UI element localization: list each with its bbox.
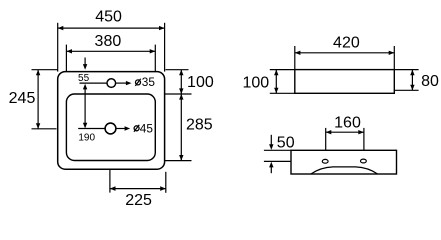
- svg-text:225: 225: [125, 192, 152, 209]
- dimension 245: [9, 70, 58, 129]
- dimension 50: [264, 135, 295, 174]
- dimension 100 side view: [242, 70, 294, 94]
- label diameter 35: [135, 75, 155, 89]
- svg-text:190: 190: [78, 133, 95, 144]
- svg-text:285: 285: [186, 117, 213, 134]
- dimension 225: [110, 169, 166, 209]
- dimension 450: [58, 9, 165, 72]
- faucet hole centerline: [80, 82, 108, 84]
- dimension 420: [295, 35, 395, 70]
- plan view inner bowl outline: [66, 94, 155, 161]
- dimension 100 plan view: [165, 70, 214, 94]
- dimension 190: [78, 84, 95, 144]
- dimension 285: [165, 94, 213, 161]
- svg-text:45: 45: [140, 121, 154, 135]
- svg-text:35: 35: [142, 75, 156, 89]
- front view bowl curve: [311, 167, 378, 174]
- dimension 80: [394, 70, 439, 91]
- svg-text:245: 245: [9, 90, 36, 107]
- svg-text:55: 55: [78, 73, 90, 84]
- svg-text:450: 450: [95, 9, 122, 26]
- side view outline: [295, 70, 395, 94]
- faucet hole leader arrow: [116, 81, 132, 85]
- dimension 380: [66, 33, 155, 72]
- drain hole leader arrow: [116, 126, 130, 130]
- front view outline: [291, 150, 397, 174]
- front view right slot hole: [361, 159, 367, 163]
- front view left slot hole: [322, 159, 328, 163]
- drain hole centerline: [78, 128, 105, 130]
- label diameter 45: [134, 121, 153, 135]
- svg-text:380: 380: [95, 33, 122, 50]
- faucet hole circle: [107, 79, 116, 88]
- svg-text:100: 100: [242, 74, 269, 91]
- drain hole circle: [105, 123, 116, 134]
- plan view basin outer outline: [58, 72, 165, 170]
- dimension 160: [326, 115, 364, 151]
- svg-text:420: 420: [333, 35, 360, 52]
- svg-text:50: 50: [277, 135, 295, 152]
- svg-text:100: 100: [187, 74, 214, 91]
- svg-text:80: 80: [421, 73, 439, 90]
- dimension 55: [78, 58, 90, 85]
- svg-text:160: 160: [334, 115, 361, 132]
